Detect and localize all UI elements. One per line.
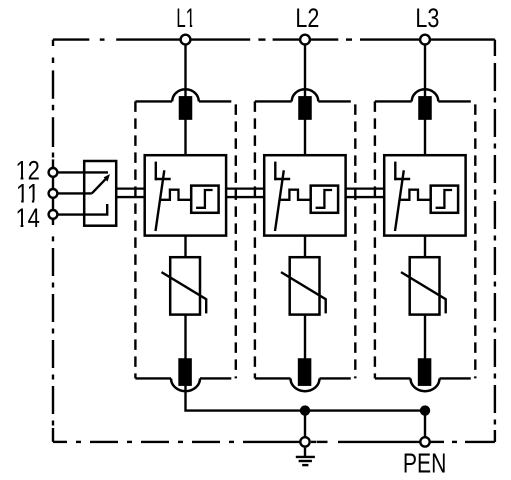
wire spark gap 2 to varistor 2 (304, 236, 306, 258)
spark gap F1 blade electrode (156, 170, 165, 231)
triggered spark gap F1 box (145, 155, 226, 235)
wire L2 terminal to top terminal block (304, 45, 306, 99)
wire top terminal block to spark gap 3 (424, 118, 426, 155)
junction node at module 3 / PEN (420, 405, 430, 415)
step symbol in trigger device 1 (196, 190, 213, 208)
label L2 (295, 3, 319, 33)
wire spark gap 1 to varistor 1 (184, 236, 186, 258)
top terminal block module 3 (filled) (418, 96, 431, 120)
varistor MOV3 body (410, 257, 440, 314)
top terminal block module 1 (filled) (179, 96, 192, 120)
signalling contact box (84, 161, 116, 226)
module 2 enclosure left edge (dashed) (254, 101, 256, 378)
wire terminal 11 to common contact (53, 192, 92, 194)
wire terminal 14 to NO contact (53, 204, 107, 215)
svg-text:L3: L3 (415, 3, 439, 33)
outer enclosure frame bottom (dash-dot) (53, 441, 67, 443)
terminal circle 12 (49, 168, 58, 177)
contact blade arrowhead (104, 174, 110, 182)
module 2 enclosure right edge (dashed) (354, 104, 356, 378)
module 2 bottom feed-through arch (291, 378, 320, 391)
module 3 enclosure left edge (dashed) (374, 101, 376, 378)
module 1 bottom feed-through arch (171, 378, 200, 391)
svg-text:14: 14 (15, 203, 40, 233)
junction node at module 2 / earth (300, 405, 310, 415)
svg-text:L2: L2 (295, 3, 319, 33)
spark gap F3 electrode tick (394, 178, 410, 180)
wire varistor 2 to bottom terminal block (304, 315, 306, 360)
varistor MOV2 diagonal (281, 272, 326, 313)
trigger waveform link module 1 (160, 190, 191, 200)
terminal circle L2 (300, 35, 310, 45)
spark gap F2 upper electrode lead (274, 162, 276, 181)
outer enclosure frame left (dash-dot) (52, 40, 54, 46)
spark gap F2 blade electrode (275, 170, 284, 231)
terminal circle 14 (49, 210, 58, 219)
PEN terminal circle (420, 437, 429, 446)
module 1 enclosure bottom line (135, 377, 171, 379)
spark gap F3 upper electrode lead (394, 162, 396, 181)
varistor MOV1 diagonal (162, 272, 207, 313)
label L1 (176, 3, 195, 33)
module 2 top feed-through arch (292, 89, 319, 101)
trigger bus F1 to F2 (double line) (226, 188, 264, 190)
earth symbol (304, 448, 306, 457)
outer enclosure frame top (dash-dot) (53, 38, 89, 40)
label 14 (15, 203, 40, 233)
module 3 enclosure top line (375, 100, 412, 102)
wire terminal 12 to NC contact (53, 171, 108, 173)
module 1 top feed-through arch (172, 89, 199, 101)
label L3 (415, 3, 439, 33)
module 2 enclosure top line (255, 100, 292, 102)
module 3 bottom feed-through arch (411, 378, 440, 391)
wire L1 terminal to top terminal block (184, 45, 186, 99)
changeover contact blade (92, 178, 106, 193)
frame left solid section at signalling terminals (52, 166, 54, 221)
spark gap F1 upper electrode lead (155, 162, 157, 181)
varistor MOV1 body (170, 257, 200, 314)
step symbol in trigger device 3 (436, 190, 453, 208)
module 2 enclosure bottom line (255, 377, 291, 379)
label PEN (403, 448, 447, 479)
trigger device box module 1 (191, 186, 218, 213)
wire top terminal block to spark gap 1 (184, 118, 186, 155)
label 11 (16, 179, 40, 209)
spark gap F3 blade electrode (395, 170, 404, 231)
outer enclosure frame right (dash-dot) (494, 40, 496, 56)
trigger bus signalling contact to F1 (double line) (116, 188, 145, 190)
wire top terminal block to spark gap 2 (304, 118, 306, 155)
trigger device box module 2 (311, 186, 338, 213)
svg-text:PEN: PEN (403, 448, 447, 479)
wire varistor 1 to bottom terminal block (184, 315, 186, 360)
triggered spark gap F3 box (384, 155, 465, 235)
wire PE bus to earth terminal (304, 411, 306, 442)
top terminal block module 2 (filled) (298, 96, 311, 120)
wire L3 terminal to top terminal block (424, 45, 426, 99)
wire varistor 3 to bottom terminal block (424, 315, 426, 360)
svg-text:L1: L1 (176, 3, 195, 33)
PE bus wire (module 1 corner to module 3) (186, 385, 426, 411)
module 3 top feed-through arch (412, 89, 439, 101)
earth terminal circle (300, 437, 309, 446)
label 12 (15, 156, 40, 186)
terminal circle L1 (181, 35, 191, 45)
varistor MOV2 body (290, 257, 320, 314)
wire spark gap 3 to varistor 3 (424, 236, 426, 258)
bottom terminal block module 1 (filled) (178, 358, 191, 386)
spark gap F2 electrode tick (274, 178, 290, 180)
trigger bus F2 to F3 (double line) (346, 188, 384, 190)
module 1 enclosure left edge (dashed) (134, 101, 136, 378)
module 3 enclosure right edge (dashed) (474, 104, 476, 378)
module 1 enclosure right edge (dashed) (235, 104, 237, 378)
module 3 enclosure bottom line (375, 377, 411, 379)
varistor MOV3 diagonal (401, 272, 446, 313)
trigger waveform link module 2 (279, 190, 310, 200)
terminal circle L3 (420, 35, 430, 45)
triggered spark gap F2 box (264, 155, 345, 235)
bottom terminal block module 3 (filled) (418, 358, 431, 386)
trigger waveform link module 3 (399, 190, 430, 200)
module 1 enclosure top line (135, 100, 172, 102)
spark gap F1 electrode tick (155, 178, 171, 180)
step symbol in trigger device 2 (316, 190, 333, 208)
terminal circle 11 (49, 189, 58, 198)
trigger device box module 3 (431, 186, 458, 213)
wire PE bus to PEN terminal (424, 411, 426, 442)
bottom terminal block module 2 (filled) (298, 358, 311, 386)
